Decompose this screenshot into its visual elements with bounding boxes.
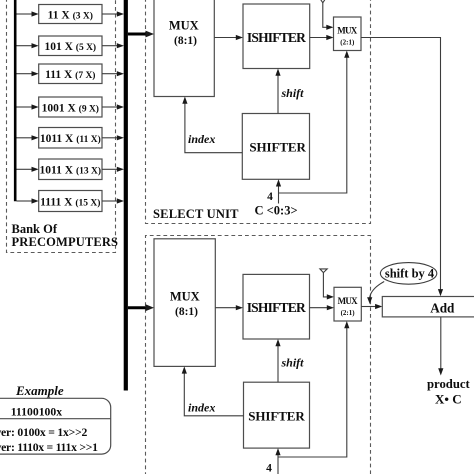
- thick wire bus to mux 8:1 (unit 1): [128, 33, 147, 36]
- adder: [382, 297, 474, 317]
- wire X to 15X box: [17, 200, 33, 202]
- svg-text:Bank Of: Bank Of: [12, 222, 58, 236]
- svg-text:ISHIFTER: ISHIFTER: [247, 300, 306, 315]
- svg-text:(2:1): (2:1): [341, 309, 356, 317]
- wire ishifter to mux 2:1 (unit 2): [310, 307, 328, 309]
- wire 7X box to bus: [102, 73, 118, 75]
- svg-text:SELECT UNIT: SELECT UNIT: [153, 207, 239, 221]
- wire X to 3X box: [17, 13, 33, 15]
- precomputer box 7X: [39, 64, 102, 84]
- shifter (unit 1): [242, 114, 309, 180]
- svg-text:101 X (5 X): 101 X (5 X): [44, 41, 96, 53]
- wire ishifter to mux 2:1 (unit 1): [310, 37, 327, 39]
- svg-text:SHIFTER: SHIFTER: [249, 140, 306, 155]
- shifter (unit 2): [244, 382, 310, 448]
- wire 5X box to bus: [102, 45, 118, 47]
- svg-text:MUX: MUX: [337, 26, 358, 36]
- wire mux 8:1 to ishifter (unit 2): [215, 307, 236, 309]
- wire shift: shifter to ishifter (unit 2): [277, 346, 279, 382]
- precomputed-multiples bus (thick vertical): [124, 0, 128, 391]
- wire antenna to mux 2:1 (unit 2): [323, 273, 327, 297]
- wire 9X box to bus: [102, 106, 118, 108]
- precomputer box 13X: [39, 159, 102, 180]
- shift by 4 ellipse annotation: [380, 263, 436, 285]
- wire mux 8:1 to ishifter (unit 1): [214, 37, 236, 39]
- mux 8:1 (unit 2): [154, 239, 215, 367]
- wire X to 7X box: [17, 73, 33, 75]
- wire shift: shifter to ishifter (unit 1): [277, 75, 279, 113]
- svg-text:1011 X (11 X): 1011 X (11 X): [40, 133, 101, 145]
- example separator line: [0, 418, 111, 420]
- antenna input symbol (unit 1, cut at top): [319, 0, 326, 3]
- select unit 2 dashed box: [146, 236, 371, 474]
- mux 2:1 (unit 2): [334, 287, 361, 321]
- ishifter (unit 2): [243, 274, 310, 339]
- wire C branch to mux 2:1 (unit 1): [279, 57, 347, 193]
- svg-text:Add: Add: [430, 300, 455, 315]
- thick wire bus to mux 8:1 (unit 2): [128, 306, 147, 309]
- wire C input to shifter (unit 1): [278, 186, 280, 203]
- svg-text:index: index: [188, 132, 215, 146]
- wire X to 9X box: [17, 106, 33, 108]
- wire adder to product: [440, 317, 442, 369]
- input X bus (thick vertical line, left): [14, 0, 17, 201]
- bank of precomputers dashed box: [7, 0, 116, 253]
- example rounded box: [0, 398, 111, 454]
- svg-text:1001 X (9 X): 1001 X (9 X): [42, 102, 99, 114]
- svg-text:11100100x: 11100100x: [11, 405, 63, 418]
- svg-text:1011 X (13 X): 1011 X (13 X): [40, 165, 102, 177]
- svg-text:(8:1): (8:1): [174, 35, 197, 47]
- svg-text:1111 X (15 X): 1111 X (15 X): [40, 197, 100, 209]
- wire 15X box to bus: [102, 200, 118, 202]
- wire 3X box to bus: [102, 13, 118, 15]
- svg-text:4: 4: [267, 191, 273, 203]
- svg-text:shift: shift: [281, 86, 305, 100]
- svg-text:shift: shift: [281, 356, 305, 370]
- svg-text:PRECOMPUTERS: PRECOMPUTERS: [12, 235, 119, 249]
- wire X to 11X box: [17, 137, 33, 139]
- precomputer box 5X: [39, 36, 102, 56]
- svg-text:111 X (7 X): 111 X (7 X): [45, 69, 95, 81]
- wire mux 2:1 (unit 2) to adder: [361, 306, 375, 308]
- svg-text:11 X (3 X): 11 X (3 X): [48, 10, 93, 22]
- svg-text:MUX: MUX: [338, 296, 359, 306]
- ishifter (unit 1): [243, 4, 310, 69]
- precomputer box 11X: [39, 128, 102, 149]
- wire C input to shifter (unit 2): [277, 455, 279, 474]
- svg-text:MUX: MUX: [169, 18, 199, 32]
- wire index: shifter to mux 8:1 (unit 2): [184, 373, 243, 416]
- select unit 1 dashed box: [146, 0, 371, 224]
- wire X to 5X box: [17, 45, 33, 47]
- mux 8:1 (unit 1): [154, 0, 214, 97]
- wire antenna to mux 2:1 (unit 1): [323, 3, 327, 28]
- antenna input symbol (unit 2): [320, 269, 327, 273]
- curved arrow from ellipse to adder input wire: [370, 282, 385, 299]
- svg-text:shift by 4: shift by 4: [385, 267, 435, 281]
- wire 13X box to bus: [102, 168, 118, 170]
- svg-text:MUX: MUX: [170, 289, 200, 303]
- precomputer box 15X: [39, 191, 102, 212]
- svg-text:wer: 0100x = 1x>>2: wer: 0100x = 1x>>2: [0, 426, 88, 439]
- mux 2:1 (unit 1): [334, 17, 362, 51]
- svg-text:index: index: [188, 401, 215, 415]
- svg-text:Example: Example: [15, 383, 64, 398]
- wire mux 2:1 (unit 1) to adder: [361, 38, 441, 290]
- precomputer box 9X: [39, 97, 102, 117]
- wire X to 13X box: [17, 168, 33, 170]
- svg-text:(8:1): (8:1): [175, 306, 198, 318]
- svg-text:4: 4: [266, 463, 272, 474]
- wire index: shifter to mux 8:1 (unit 1): [185, 103, 242, 152]
- precomputer box 3X: [39, 5, 102, 24]
- svg-text:ISHIFTER: ISHIFTER: [247, 30, 306, 45]
- svg-text:SHIFTER: SHIFTER: [248, 409, 305, 424]
- svg-text:product: product: [427, 377, 471, 391]
- svg-text:ver: 1110x = 111x >>1: ver: 1110x = 111x >>1: [0, 441, 98, 454]
- svg-text:(2:1): (2:1): [340, 38, 355, 46]
- wire 11X box to bus: [102, 137, 118, 139]
- svg-text:X• C: X• C: [435, 392, 462, 407]
- svg-text:C <0:3>: C <0:3>: [255, 204, 298, 218]
- wire C branch to mux 2:1 (unit 2): [278, 328, 347, 457]
